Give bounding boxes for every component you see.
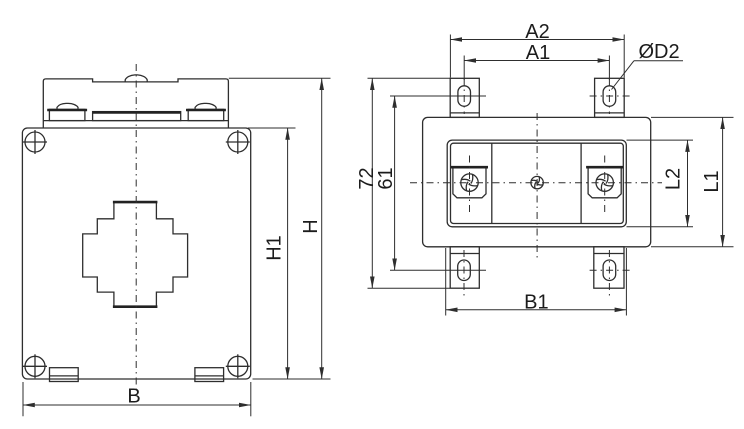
dim H line xyxy=(321,78,323,379)
corner screw bottom-right xyxy=(226,354,250,378)
inner cover inner line xyxy=(451,143,624,223)
dim L1 line xyxy=(722,117,724,246)
right terminal xyxy=(188,109,224,120)
top-right slot xyxy=(603,86,616,107)
terminal block outline xyxy=(43,79,228,128)
center label strip xyxy=(93,112,181,121)
center screw xyxy=(531,176,543,188)
svg-text:L1: L1 xyxy=(701,170,723,192)
stepped window opening xyxy=(83,202,188,307)
dim H1 line xyxy=(287,128,289,379)
left terminal dome screw xyxy=(57,103,78,109)
svg-text:A2: A2 xyxy=(525,21,549,43)
right terminal dome screw xyxy=(195,103,216,109)
svg-text:ØD2: ØD2 xyxy=(638,41,679,63)
corner screw bottom-left xyxy=(23,354,47,378)
dim 72 line xyxy=(371,78,373,288)
left terminal pad xyxy=(453,169,486,198)
right terminal pad xyxy=(588,169,621,198)
top-right slot crosshair vertical xyxy=(608,79,610,115)
body outline xyxy=(22,128,250,379)
bottom-left slot crosshair vertical xyxy=(463,250,465,300)
right screw centerline xyxy=(604,156,606,213)
top-left slot crosshair vertical xyxy=(463,79,465,115)
divider right xyxy=(580,143,582,223)
dim L2 extensions xyxy=(627,139,694,141)
dim L2 line xyxy=(687,140,689,227)
bottom-right slot crosshair horizontal xyxy=(590,269,630,271)
inner cover outer line xyxy=(447,140,626,227)
front view centerline xyxy=(135,64,137,389)
dim 61 extensions xyxy=(390,95,486,97)
top-right slot crosshair horizontal xyxy=(590,95,630,97)
svg-text:A1: A1 xyxy=(526,42,550,64)
left terminal xyxy=(49,109,85,120)
stepped window thick top edge xyxy=(113,201,157,204)
dim 61 line xyxy=(394,96,396,270)
bottom-right slot crosshair vertical xyxy=(608,250,610,300)
svg-text:B1: B1 xyxy=(524,291,548,313)
dim B1 extensions xyxy=(445,248,447,316)
dim B line xyxy=(23,404,251,406)
bottom-left slot xyxy=(458,260,471,281)
left terminal screw xyxy=(461,174,478,191)
svg-text:61: 61 xyxy=(375,167,397,189)
vertical centerline xyxy=(536,113,538,258)
horizontal centerline xyxy=(410,182,662,184)
terminal block seam xyxy=(43,120,228,122)
top-right mounting foot xyxy=(595,78,625,117)
bottom-right mounting foot xyxy=(594,247,624,288)
dim B extension lines xyxy=(22,382,24,416)
svg-text:H: H xyxy=(300,219,322,233)
corner screw top-right xyxy=(226,130,250,154)
svg-text:L2: L2 xyxy=(663,168,685,190)
right foot xyxy=(195,368,224,382)
dim H extensions xyxy=(229,77,331,79)
dim A1 line xyxy=(464,60,609,62)
top-left mounting foot xyxy=(450,78,479,117)
bottom-left mounting foot xyxy=(450,247,479,288)
divider left xyxy=(491,143,493,223)
stepped window thick bottom edge xyxy=(113,305,157,308)
svg-text:H1: H1 xyxy=(264,235,286,261)
dim 72 extensions xyxy=(368,77,451,79)
dim A1 extensions xyxy=(463,56,465,81)
left screw centerline xyxy=(469,156,471,213)
dim A2 extensions xyxy=(449,35,451,78)
dim B1 line xyxy=(446,309,627,311)
right terminal screw xyxy=(596,174,613,191)
dim D2 leader xyxy=(612,61,635,90)
top-left slot xyxy=(458,86,471,107)
svg-text:B: B xyxy=(127,386,140,408)
body outline xyxy=(423,117,651,246)
dim H1 extension xyxy=(248,127,296,129)
dim D2 leader underline xyxy=(634,60,683,62)
block top dome screw xyxy=(125,75,147,82)
left foot xyxy=(50,368,79,382)
corner screw top-left xyxy=(23,130,47,154)
dim L1 extensions xyxy=(651,116,734,118)
dim A2 line xyxy=(450,39,624,41)
bottom-right slot xyxy=(603,260,616,281)
